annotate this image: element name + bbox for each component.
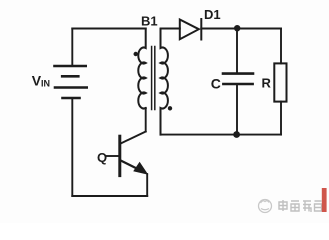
svg-text:D1: D1 <box>204 7 221 22</box>
wire bottom output rail <box>161 134 282 136</box>
transistor Q <box>106 132 146 176</box>
transformer B1 primary winding <box>138 29 145 109</box>
wire battery bottom down to bottom-left rail <box>71 98 73 196</box>
diode D1 <box>180 19 202 40</box>
wire collector vertical to primary bottom <box>145 108 147 132</box>
svg-text:Q: Q <box>97 150 107 165</box>
battery VIN <box>55 66 87 98</box>
primary phase dot <box>134 52 138 56</box>
wire output node to right corner <box>238 28 282 30</box>
node output bottom junction <box>233 131 240 138</box>
transformer secondary winding <box>161 29 168 135</box>
capacitor C <box>236 29 238 73</box>
svg-text:R: R <box>262 76 272 91</box>
wire resistor bottom down to rail <box>280 102 282 135</box>
secondary phase dot <box>168 106 172 110</box>
watermark red bar <box>322 188 327 212</box>
wire left vertical from top wire down to battery top <box>71 29 73 66</box>
wire secondary top to diode <box>161 28 180 30</box>
watermark logo <box>259 200 272 213</box>
wire right rail down to resistor top <box>280 29 282 64</box>
svg-text:B1: B1 <box>141 14 158 29</box>
transformer core lines <box>151 47 153 110</box>
wire bottom-left rail <box>72 195 147 197</box>
svg-text:C: C <box>211 76 221 92</box>
wire top-left horizontal from battery to transformer primary <box>72 28 145 30</box>
watermark text 电源联盟 <box>279 200 322 212</box>
transistor emitter arrowhead <box>133 162 148 175</box>
node output top junction <box>234 25 240 31</box>
resistor R <box>274 63 286 101</box>
wire diode cathode to output node <box>201 28 237 30</box>
wire emitter vertical <box>146 174 148 196</box>
